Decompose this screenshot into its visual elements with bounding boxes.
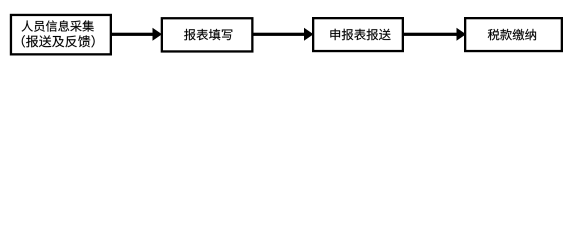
arrow 2: box 2 to box 3 [254, 33, 305, 36]
arrow 1: box 1 to box 2 [112, 33, 153, 36]
process box 2 (报表填写) [162, 18, 253, 51]
box 1 text line 1: 人员信息采集 [22, 20, 94, 31]
process box 3 (申报表报送) [313, 18, 403, 51]
arrow 3: box 3 to box 4 [404, 33, 457, 36]
box 3 text: 申报表报送 [330, 29, 390, 40]
box 1 text line 2: （报送及反馈） [22, 35, 95, 47]
process box 4 (税款缴纳) [465, 18, 562, 51]
box 4 text: 税款缴纳 [488, 29, 536, 40]
box 2 text: 报表填写 [184, 29, 232, 40]
process box 1 (人员信息采集 报送及反馈) [11, 15, 111, 54]
